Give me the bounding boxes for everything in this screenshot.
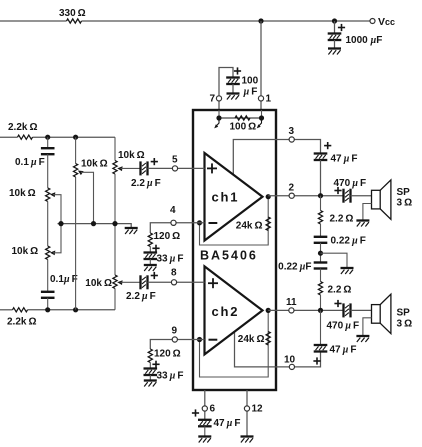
resistor 2.2 ohm ch2: [318, 282, 322, 296]
wire: common node to ground: [321, 253, 348, 267]
ground below 100uF: [227, 94, 240, 100]
wire: ch1 input top rail: [0, 136, 18, 138]
svg-text:SP: SP: [397, 187, 411, 198]
wire: output node to 2.2 ohm: [320, 196, 322, 211]
junction bus / right branch: [112, 221, 117, 226]
svg-text:2.2 Ω: 2.2 Ω: [328, 285, 352, 296]
internal wire: pin1 to 100 ohm: [261, 110, 263, 118]
wire: pin10 to ch2 bottom edge: [235, 331, 321, 367]
resistor 120 ohm ch1: [148, 233, 152, 247]
op-amp ch1 triangle: [205, 153, 263, 241]
wire: 47uF pin6 to ground: [204, 426, 206, 436]
junction ch1 output: [266, 194, 271, 199]
wire: wiper ch2 to 2.2uF: [121, 281, 141, 283]
capacitor 47uF ch1: [314, 154, 328, 161]
wire: pin 6 stub: [204, 390, 206, 420]
capacitor 0.1uF ch2: [41, 292, 55, 298]
ground of zobel node: [341, 268, 354, 274]
svg-text:330 Ω: 330 Ω: [59, 8, 86, 19]
polarity + of 470uF ch2: [334, 300, 341, 307]
svg-text:11: 11: [286, 297, 297, 308]
svg-text:5: 5: [172, 155, 178, 166]
wire: pin 4 line: [150, 223, 204, 233]
ground below 33uF ch1: [144, 265, 157, 271]
junction output node ch2: [318, 308, 323, 313]
wiper arrow left ch1: [50, 192, 55, 197]
svg-text:2.2k Ω: 2.2k Ω: [8, 122, 37, 133]
wire: 47uF ch1 to output node: [320, 160, 322, 196]
wire: top Vcc rail: [0, 20, 67, 22]
svg-text:6: 6: [210, 404, 216, 415]
wire: 33uF ch2 to ground: [149, 375, 151, 380]
svg-text:3: 3: [289, 126, 295, 137]
wiper arrow left ch2: [50, 251, 55, 256]
wire: rail to 1000uF: [334, 21, 336, 34]
wire: right branch lower: [114, 289, 116, 310]
svg-text:47 µ F: 47 µ F: [214, 418, 241, 429]
resistor 2.2k ohm ch2: [13, 308, 28, 312]
junction top wire / 0.1uF: [45, 135, 50, 140]
junction: rail to pin 1: [258, 18, 263, 23]
wire: pin 2 output line: [268, 195, 344, 197]
capacitor 0.22uF ch2: [314, 263, 328, 269]
svg-text:10k Ω: 10k Ω: [85, 278, 112, 289]
svg-text:BA5406: BA5406: [200, 249, 258, 263]
svg-text:10k Ω: 10k Ω: [118, 150, 145, 161]
op-amp ch2 triangle: [205, 266, 263, 354]
svg-text:10k Ω: 10k Ω: [12, 246, 39, 257]
capacitor 2.2uF ch1: [141, 161, 148, 175]
svg-text:1: 1: [266, 94, 272, 105]
capacitor 1000uF: [328, 34, 342, 41]
internal arrow left: [217, 120, 219, 126]
polarity + of 47uF ch1: [324, 142, 331, 149]
capacitor 0.22uF ch1: [314, 237, 328, 243]
wire: speaker 1 to ground: [363, 204, 372, 220]
svg-text:120 Ω: 120 Ω: [154, 231, 181, 242]
svg-text:9: 9: [172, 326, 178, 337]
polarity + of 1000uF: [338, 24, 345, 31]
junction: rail to 1000uF: [332, 18, 337, 23]
svg-text:2.2 µ F: 2.2 µ F: [131, 178, 161, 189]
wire: 1000uF to ground: [334, 40, 336, 48]
wire: right branch to gnd bus: [114, 174, 116, 275]
wire: 100uF to ground: [232, 84, 234, 93]
capacitor 47uF ch2: [314, 345, 328, 352]
wire: 33uF ch1 to ground: [149, 259, 151, 265]
wire: speaker 2 to ground: [363, 318, 372, 336]
wire: pin11 node to 47uF ch2: [320, 310, 322, 345]
wire: wiper ch1 to gnd bus: [53, 195, 61, 224]
svg-text:3 Ω: 3 Ω: [397, 319, 413, 330]
svg-text:2.2 µ F: 2.2 µ F: [126, 291, 156, 302]
minus input mark ch1: [209, 222, 218, 224]
capacitor 470uF ch2: [344, 303, 351, 317]
wire: pin3 to ch1 top edge: [233, 140, 320, 177]
svg-text:µ F: µ F: [243, 87, 258, 98]
ground below speaker 1: [356, 221, 369, 227]
ground of input bus: [125, 228, 138, 234]
svg-text:2.2k Ω: 2.2k Ω: [7, 317, 36, 328]
wire: wiper ch2 to gnd bus: [53, 224, 61, 253]
junction bus / wipers left: [58, 221, 63, 226]
capacitor 0.1uF ch1: [41, 148, 55, 154]
ground below 1000uF: [328, 49, 341, 55]
svg-text:Vcc: Vcc: [378, 16, 395, 28]
junction bottom wire / 0.1uF ch2: [45, 307, 50, 312]
junction zobel common node: [318, 251, 323, 256]
junction at pin1 internal: [259, 115, 264, 120]
polarity + of 100uF: [234, 67, 241, 74]
pin 11 terminal: [289, 308, 294, 313]
resistor 2.2k ohm ch1: [18, 135, 33, 139]
wire: 2.2uF ch1 to pin5 and +input: [148, 167, 205, 169]
svg-text:470 µ F: 470 µ F: [327, 321, 360, 332]
resistor 330 ohm: [67, 19, 82, 23]
svg-text:2: 2: [289, 183, 295, 194]
wiper arrow right ch1: [117, 166, 122, 171]
resistor 10k ohm right ch2: [113, 275, 117, 289]
ground below 33uF ch2: [144, 381, 157, 387]
wire: 120 ohm to 33uF ch1: [149, 247, 151, 253]
minus input mark ch2: [209, 339, 218, 341]
wire: left chain upper: [47, 137, 49, 148]
svg-text:24k Ω: 24k Ω: [236, 221, 263, 232]
junction ch2 inverting node: [197, 337, 202, 342]
resistor 2.2 ohm ch1: [318, 211, 322, 225]
wire: 2.2 ohm ch2 to pin 11 node: [320, 295, 322, 310]
op-amp IC BA5406 outline: [193, 110, 276, 390]
resistor 120 ohm ch2: [148, 349, 152, 363]
internal arrow right: [259, 120, 261, 126]
svg-text:33 µ F: 33 µ F: [157, 254, 184, 265]
wire: left chain lower: [47, 260, 49, 292]
svg-text:0.22 µF: 0.22 µF: [278, 262, 311, 273]
junction bottom wire / middle branch: [73, 307, 78, 312]
wire: middle wiper to gnd bus: [81, 172, 94, 223]
junction bus / middle wiper: [91, 221, 96, 226]
wire: ch1 feedback loop: [200, 197, 269, 245]
wire: pin 7 riser to 100uF: [219, 68, 233, 111]
svg-text:ch1: ch1: [212, 190, 240, 205]
svg-text:ch2: ch2: [212, 304, 240, 319]
svg-text:120 Ω: 120 Ω: [154, 349, 181, 360]
polarity + of 47uF pin6: [192, 409, 199, 416]
wiper arrow right ch2: [117, 280, 122, 285]
pin 2 terminal: [289, 193, 294, 198]
ground below pin 6: [198, 437, 211, 443]
pin 3 terminal: [289, 137, 294, 142]
node Vcc terminal: [370, 19, 375, 24]
capacitor 100uF: [226, 78, 240, 85]
resistor 10k ohm right ch1: [113, 161, 117, 175]
wire: pin 11 output line: [268, 309, 344, 311]
internal wire: pin7 to 100 ohm: [218, 110, 220, 118]
wire: 0.1uF ch2 to bottom wire: [47, 298, 49, 310]
wire: 0.1uF to 10k pot ch1: [47, 154, 49, 188]
wire: wiper ch1 to 2.2uF: [121, 167, 141, 169]
wire: 2.2 ohm to 0.22uF ch1: [320, 224, 322, 237]
polarity + of 33uF ch1: [152, 245, 159, 252]
svg-text:10k Ω: 10k Ω: [9, 188, 36, 199]
wire: pin 12 stub: [246, 390, 248, 436]
wire: middle branch vertical: [75, 137, 77, 163]
speaker SP 3 ohm ch2: [372, 294, 391, 333]
svg-text:10: 10: [284, 355, 296, 366]
junction ch2 output: [266, 308, 271, 313]
wire: ground bus: [58, 224, 132, 228]
wire: 0.22uF ch1 to common node: [320, 243, 322, 263]
wire: 100 ohm link: [219, 117, 262, 119]
resistor 10k ohm left ch2: [46, 246, 50, 260]
svg-text:2.2 Ω: 2.2 Ω: [330, 214, 354, 225]
pin 5 terminal: [172, 166, 177, 171]
svg-text:33 µ F: 33 µ F: [157, 371, 184, 382]
pin 8 terminal: [171, 280, 176, 285]
wire: 0.22uF ch2 to 2.2 ohm ch2: [320, 269, 322, 282]
svg-text:10k Ω: 10k Ω: [81, 159, 108, 170]
capacitor 2.2uF ch2: [141, 275, 148, 289]
svg-text:12: 12: [252, 404, 264, 415]
capacitor 33uF ch1: [144, 253, 158, 260]
pin 6 terminal: [202, 406, 207, 411]
speaker SP 3 ohm ch1: [372, 180, 391, 219]
svg-text:0.1µ F: 0.1µ F: [50, 274, 78, 285]
polarity + of 47uF ch2: [313, 357, 320, 364]
resistor 10k ohm middle: [74, 164, 78, 178]
polarity + of 33uF ch2: [152, 361, 159, 368]
resistor 24k ohm ch2: [266, 332, 270, 346]
wire: 470uF ch2 to speaker 2: [351, 309, 372, 311]
pin 9 terminal: [172, 337, 177, 342]
svg-text:47 µ F: 47 µ F: [331, 154, 358, 165]
pin 1 terminal: [258, 96, 263, 101]
svg-text:0.1 µ F: 0.1 µ F: [15, 157, 45, 168]
plus input mark ch2: [208, 278, 218, 288]
ground below speaker 2: [356, 336, 369, 342]
svg-text:4: 4: [170, 205, 176, 216]
wire: 2.2uF ch2 to pin8 and +input: [148, 281, 205, 283]
resistor 10k ohm left ch1: [46, 188, 50, 202]
wire: pin 1 to rail: [260, 21, 262, 110]
wire: right branch upper: [114, 137, 116, 160]
pin 12 terminal: [244, 406, 249, 411]
polarity + of 2.2uF ch2: [151, 272, 158, 279]
polarity + of 2.2uF ch1: [151, 158, 158, 165]
resistor 24k ohm ch1: [266, 217, 270, 231]
svg-text:7: 7: [209, 94, 215, 105]
ground below pin 12: [241, 437, 254, 443]
pin 10 terminal: [289, 364, 294, 369]
svg-text:100 Ω: 100 Ω: [230, 122, 257, 133]
svg-text:8: 8: [171, 268, 177, 279]
svg-text:3 Ω: 3 Ω: [397, 198, 413, 209]
wire: ch2 input bottom rail: [0, 309, 13, 311]
junction output node ch1: [318, 193, 323, 198]
wire: left chain middle: [47, 201, 49, 246]
junction top wire / middle branch: [73, 135, 78, 140]
pin 4 terminal: [171, 220, 176, 225]
resistor 100 ohm internal: [235, 116, 250, 120]
svg-text:24k Ω: 24k Ω: [238, 334, 265, 345]
pin 7 terminal: [216, 96, 221, 101]
capacitor 47uF pin6: [198, 420, 212, 427]
capacitor 470uF ch1: [344, 189, 351, 203]
polarity + of 470uF ch1: [334, 187, 341, 194]
wiper arrow middle: [77, 169, 84, 176]
junction ch1 inverting node: [197, 220, 202, 225]
svg-text:0.22 µ F: 0.22 µ F: [331, 236, 366, 247]
wire: ch2 feedback loop: [200, 310, 269, 377]
wire: 470uF to speaker 1: [351, 195, 372, 197]
svg-text:100: 100: [242, 76, 259, 87]
wire: pin 9 line: [150, 340, 204, 350]
svg-text:1000 µF: 1000 µF: [346, 35, 383, 46]
junction at pin7 internal: [216, 115, 221, 120]
capacitor 33uF ch2: [144, 369, 158, 376]
svg-text:SP: SP: [397, 308, 411, 319]
svg-text:47 µ F: 47 µ F: [330, 345, 357, 356]
wire: 120 ohm to 33uF ch2: [149, 363, 151, 369]
plus input mark ch1: [207, 163, 217, 173]
